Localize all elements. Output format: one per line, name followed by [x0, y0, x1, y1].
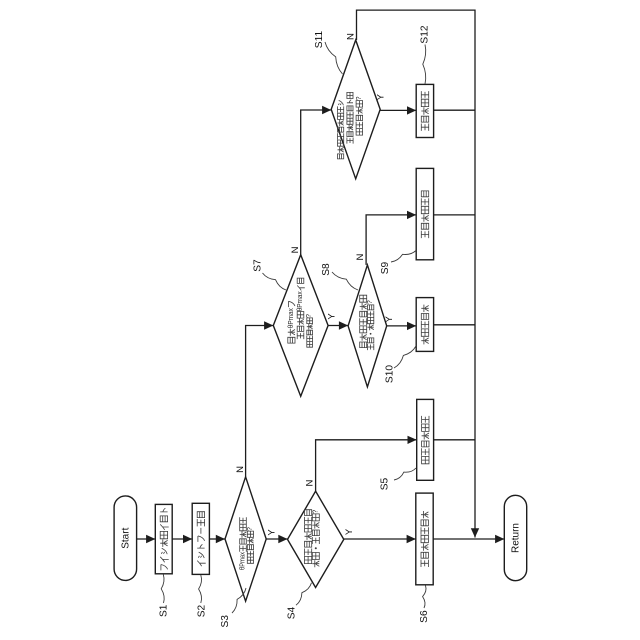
text S1 センサ値読み出し [160, 508, 169, 570]
svg-text:S8: S8 [321, 263, 332, 276]
label Y of S4 [344, 528, 355, 535]
text Return [510, 523, 521, 553]
label N of S4 [305, 479, 316, 486]
label Y of S3 [266, 529, 277, 536]
wire S7-N to S11 [301, 106, 332, 255]
label S10 [385, 365, 396, 383]
svg-text:S11: S11 [314, 30, 325, 48]
svg-text:S10: S10 [385, 365, 396, 383]
label S1 [159, 604, 170, 617]
terminal Return [504, 495, 526, 580]
svg-text:?: ? [367, 300, 374, 304]
svg-text:Return: Return [510, 523, 521, 553]
leader S1 [161, 575, 164, 604]
label N of S7 [290, 246, 301, 253]
svg-text:θPmax: θPmax [240, 552, 247, 570]
label S7 [253, 259, 264, 272]
wire S6 to Return [433, 535, 504, 543]
text S8 点火時期補正量上限・下限到達? [360, 295, 374, 350]
text S9 点火時期補正 [421, 191, 428, 238]
text S10 圧縮比補正 [421, 305, 428, 345]
wire S8-N to S9 [366, 211, 416, 265]
text S12 圧縮比補正 [421, 91, 428, 131]
wire S7-Y to S8 [328, 321, 348, 329]
wire S9 to trunk [434, 214, 475, 216]
leader S5 [394, 468, 416, 480]
leader S6 [423, 586, 426, 609]
svg-text:?: ? [247, 527, 254, 531]
wire S5 to trunk [434, 439, 475, 441]
text S11 気筒平均点火時期と基準点火時期の差所定値以上? [338, 92, 363, 158]
wire S2 to S3 [209, 535, 225, 543]
label Y of S7 [326, 313, 337, 320]
label S5 [380, 477, 391, 490]
svg-text:S1: S1 [159, 604, 170, 617]
leader S8 [332, 272, 358, 290]
wire S4-Y to S6 [344, 535, 416, 543]
text S7 目標θPmaxと気筒平均θPmaxの差所定値以上? [288, 278, 313, 347]
process S9 box [416, 168, 433, 259]
process S1 box [155, 504, 172, 573]
svg-text:Y: Y [326, 313, 337, 320]
process S2 box [192, 503, 209, 574]
svg-text:N: N [355, 253, 366, 260]
label N of S11 [346, 33, 357, 40]
terminal Start [114, 496, 137, 581]
leader S10 [394, 346, 416, 368]
svg-text:N: N [235, 466, 246, 473]
text Start [120, 527, 131, 548]
svg-text:θPmax: θPmax [288, 308, 295, 328]
decision S7 [273, 255, 328, 397]
label N of S3 [235, 466, 246, 473]
svg-text:Y: Y [375, 93, 386, 100]
svg-text:S6: S6 [419, 610, 430, 623]
svg-text:S12: S12 [420, 25, 431, 43]
label N of S8 [355, 253, 366, 260]
svg-text:S5: S5 [380, 477, 391, 490]
leader S3 [232, 588, 246, 613]
leader S4 [296, 583, 312, 606]
svg-text:N: N [305, 479, 316, 486]
decision S11 [331, 40, 380, 179]
svg-text:θPmax: θPmax [297, 291, 304, 311]
label S12 [420, 25, 431, 43]
wire S8-Y to S10 [387, 322, 417, 330]
decision S8 [348, 265, 387, 387]
leader S2 [199, 575, 202, 603]
wire S11-Y to S12 [380, 106, 416, 114]
label S2 [197, 604, 208, 617]
label S4 [287, 606, 298, 619]
svg-text:Y: Y [344, 528, 355, 535]
process S10 box [416, 298, 433, 352]
label S6 [419, 610, 430, 623]
svg-text:S3: S3 [220, 615, 231, 628]
text S3 θPmaxの処理間隔所定値以上? [240, 517, 254, 570]
text S2 パラメータ算出 [197, 512, 206, 567]
svg-text:?: ? [312, 510, 319, 514]
process S5 box [417, 399, 434, 480]
wire S10 to trunk [434, 324, 475, 326]
wire S4-N to S5 [316, 436, 417, 492]
label Y of S11 [375, 93, 386, 100]
leader S9 [391, 251, 416, 263]
label S11 [314, 30, 325, 48]
svg-text:N: N [290, 246, 301, 253]
wire S3-Y to S4 [266, 535, 287, 543]
svg-text:Y: Y [384, 315, 395, 322]
leader S7 [263, 273, 287, 290]
text S4 点火時期補正量上限・下限到達? [305, 510, 320, 568]
svg-text:S9: S9 [380, 261, 391, 274]
wire S1 to S2 [172, 535, 192, 543]
label S3 [220, 615, 231, 628]
svg-text:S2: S2 [197, 604, 208, 617]
wire S11-N return trunk [357, 10, 480, 537]
svg-text:?: ? [306, 314, 313, 318]
svg-text:?: ? [356, 96, 363, 100]
leader S12 [423, 45, 426, 85]
svg-text:S4: S4 [287, 606, 298, 619]
text S5 点火時期補正 [422, 416, 429, 464]
svg-text:N: N [346, 33, 357, 40]
wire S12 to trunk [434, 109, 475, 111]
wire Start to S1 [137, 535, 156, 543]
svg-text:Start: Start [120, 527, 131, 548]
leader S11 [325, 42, 343, 74]
wire S3-N to S7 [246, 321, 274, 477]
label S8 [321, 263, 332, 276]
svg-text:S7: S7 [253, 259, 264, 272]
label S9 [380, 261, 391, 274]
text S6 燃料噴射量補正 [421, 511, 428, 567]
svg-text:Y: Y [266, 529, 277, 536]
process S6 box [416, 493, 433, 585]
decision S4 [288, 491, 344, 587]
process S12 box [416, 84, 433, 137]
label Y of S8 [384, 315, 395, 322]
decision S3 [225, 477, 266, 601]
